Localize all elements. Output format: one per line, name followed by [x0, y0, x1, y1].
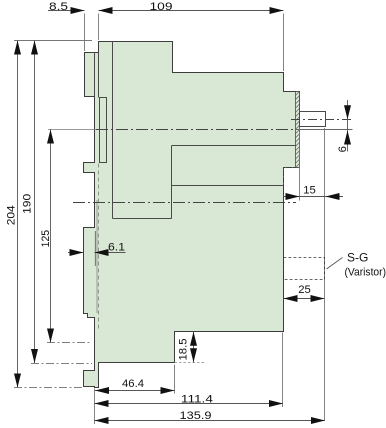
center line: shaft axis y=119.5 — [291, 119, 353, 121]
center line: lower axis y=202.5 — [73, 202, 296, 204]
internal edge vertical x=112.5 — [112, 42, 114, 219]
dim 111.4 — [95, 333, 284, 425]
internal edge vertical x=171.5 — [171, 146, 173, 219]
internal edge: vertical below top-left corner — [98, 53, 100, 98]
svg-text:135.9: 135.9 — [180, 410, 212, 422]
dim 8.5 — [48, 1, 99, 51]
svg-text:15: 15 — [303, 184, 316, 196]
center line: body axis y=129.5 — [48, 129, 96, 131]
svg-text:6.1: 6.1 — [108, 242, 125, 254]
dim 6 (shaft offset) — [337, 100, 351, 152]
svg-text:8.5: 8.5 — [49, 1, 68, 13]
svg-text:6: 6 — [337, 146, 349, 152]
faint hatch band (section) — [172, 146, 297, 168]
svg-text:190: 190 — [21, 194, 33, 214]
svg-text:109: 109 — [150, 1, 173, 13]
top extension line y=40.5 — [14, 40, 92, 42]
svg-text:111.4: 111.4 — [181, 394, 213, 406]
mounting flange (hatched strip) — [296, 92, 300, 168]
dim 135.9 — [95, 410, 326, 424]
shaft (white) — [300, 112, 326, 127]
dim 6.1 — [68, 231, 126, 266]
dim 18.5 — [175, 332, 206, 363]
svg-text:46.4: 46.4 — [122, 378, 144, 390]
contactor body outline (green side profile) — [84, 42, 300, 388]
dim 204 — [6, 41, 82, 388]
internal edge horizontal y=218.5 — [113, 218, 172, 220]
dim 46.4 — [95, 365, 175, 395]
varistor dashed box — [284, 251, 386, 280]
dim 109 — [99, 1, 284, 71]
svg-text:18.5: 18.5 — [178, 339, 190, 361]
dim 190 — [21, 41, 92, 364]
svg-text:204: 204 — [6, 205, 18, 225]
hidden edge dashed x=98.5 — [98, 164, 100, 331]
inner wall line x=97 — [96, 200, 98, 313]
internal rib boss — [100, 98, 107, 163]
dim 15 (shaft length) — [284, 128, 344, 421]
svg-text:25: 25 — [298, 284, 311, 296]
internal edge horizontal y=145.5 — [172, 145, 297, 147]
dim 125 — [40, 130, 90, 343]
svg-text:125: 125 — [40, 230, 52, 248]
dim 25 — [284, 284, 325, 302]
svg-text:S-G: S-G — [347, 251, 368, 265]
svg-text:(Varistor): (Varistor) — [345, 266, 386, 278]
internal edge horizontal y=185.5 — [172, 185, 284, 187]
internal edge: shoulder inner edge — [94, 53, 96, 97]
